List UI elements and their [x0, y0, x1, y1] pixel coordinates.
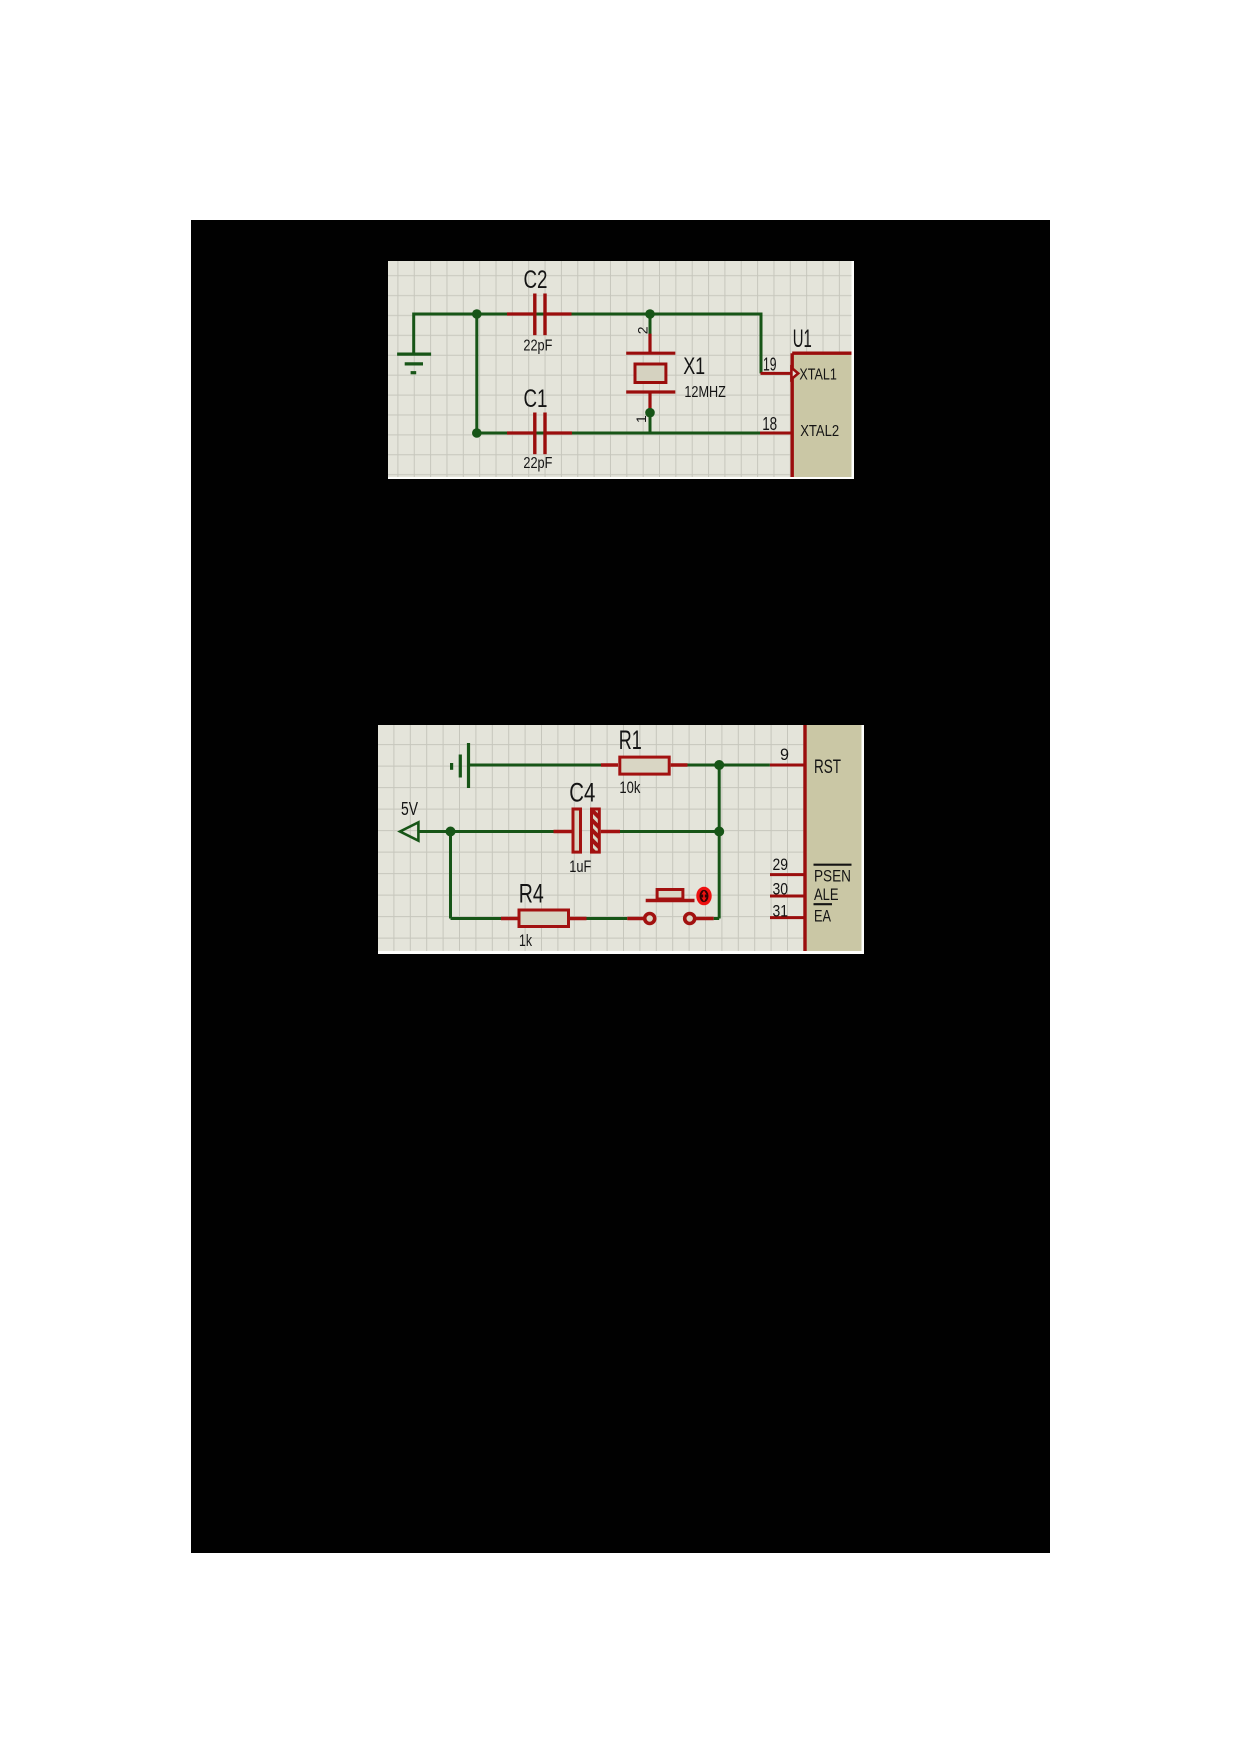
- svg-text:R4: R4: [519, 879, 544, 909]
- wire: ground to R1: [469, 764, 602, 767]
- svg-text:C4: C4: [569, 778, 595, 808]
- crystal X1: [626, 334, 675, 411]
- capacitor C4 (electrolytic): [554, 809, 621, 852]
- node 5V junction: [446, 827, 456, 837]
- wire: vertical C2-C1 link: [475, 314, 478, 433]
- wire: R1 to chip RST: [688, 764, 770, 767]
- wire: net XTAL1 top rail: [414, 314, 761, 373]
- SCHEMATIC 1 : crystal oscillator: [388, 261, 854, 479]
- svg-text:RST: RST: [814, 757, 841, 778]
- pin 30 wire: [770, 895, 805, 898]
- capacitor C2: [507, 294, 572, 336]
- svg-text:EA: EA: [814, 907, 831, 926]
- push button: [627, 890, 713, 924]
- node crystal bottom junction: [645, 408, 655, 418]
- pin 31 wire: [770, 916, 805, 919]
- ground (rotated, battery-like): [452, 743, 469, 788]
- power +5V arrow: [400, 822, 418, 840]
- capacitor C1: [507, 413, 572, 455]
- pin 19 wire: [761, 372, 792, 375]
- svg-text:31: 31: [773, 902, 789, 921]
- wire: 5V to C4: [418, 830, 553, 833]
- svg-text:22pF: 22pF: [523, 455, 552, 472]
- resistor R1: [601, 757, 688, 774]
- node C4 junction: [714, 827, 724, 837]
- svg-text:R1: R1: [619, 725, 642, 755]
- svg-text:12MHZ: 12MHZ: [684, 384, 726, 401]
- wire: C4 to vertical link: [620, 830, 719, 833]
- SCHEMATIC 2 : reset circuit: [378, 725, 864, 954]
- svg-text:1uF: 1uF: [569, 857, 591, 876]
- wire: button to vertical link: [714, 917, 720, 920]
- resistor R4: [501, 910, 587, 927]
- node A junction: [472, 309, 482, 319]
- wire: crystal pin 2 stub: [649, 314, 652, 334]
- svg-text:1k: 1k: [519, 931, 532, 950]
- svg-text:X1: X1: [683, 353, 705, 380]
- ground: [397, 354, 431, 373]
- wire: R4 to button: [587, 917, 628, 920]
- svg-text:C2: C2: [524, 266, 548, 294]
- svg-text:XTAL1: XTAL1: [799, 367, 837, 384]
- svg-text:2: 2: [635, 326, 651, 334]
- svg-text:C1: C1: [524, 385, 548, 413]
- svg-text:29: 29: [773, 855, 789, 874]
- node crystal top junction: [645, 309, 655, 319]
- U1 chip body (right strip): [805, 725, 862, 951]
- pin 19 arrow: [791, 368, 798, 380]
- svg-text:PSEN: PSEN: [814, 867, 851, 886]
- pin 18 wire: [760, 432, 793, 435]
- svg-text:18: 18: [762, 414, 777, 434]
- svg-text:XTAL2: XTAL2: [800, 423, 839, 440]
- svg-text:10k: 10k: [619, 778, 640, 797]
- svg-text:U1: U1: [793, 325, 812, 353]
- button interactive marker: [698, 888, 710, 903]
- wire: net XTAL2 bottom rail: [477, 432, 760, 435]
- svg-text:30: 30: [773, 879, 789, 898]
- wire: crystal pin 1 stub: [649, 413, 652, 433]
- wire: vertical RST link: [718, 765, 721, 919]
- pin 29 wire: [770, 873, 805, 876]
- op-amp U1 chip body: [792, 353, 851, 477]
- wire: vertical 5V branch: [449, 832, 452, 919]
- svg-text:9: 9: [780, 745, 789, 764]
- svg-text:19: 19: [763, 355, 777, 375]
- node B junction: [472, 428, 482, 438]
- svg-text:5V: 5V: [401, 799, 418, 819]
- wire: bottom row left: [451, 917, 502, 920]
- svg-text:22pF: 22pF: [523, 338, 552, 355]
- pin 9 wire: [770, 764, 805, 767]
- svg-text:ALE: ALE: [814, 885, 839, 904]
- svg-text:1: 1: [633, 415, 649, 423]
- node RST junction: [714, 760, 724, 770]
